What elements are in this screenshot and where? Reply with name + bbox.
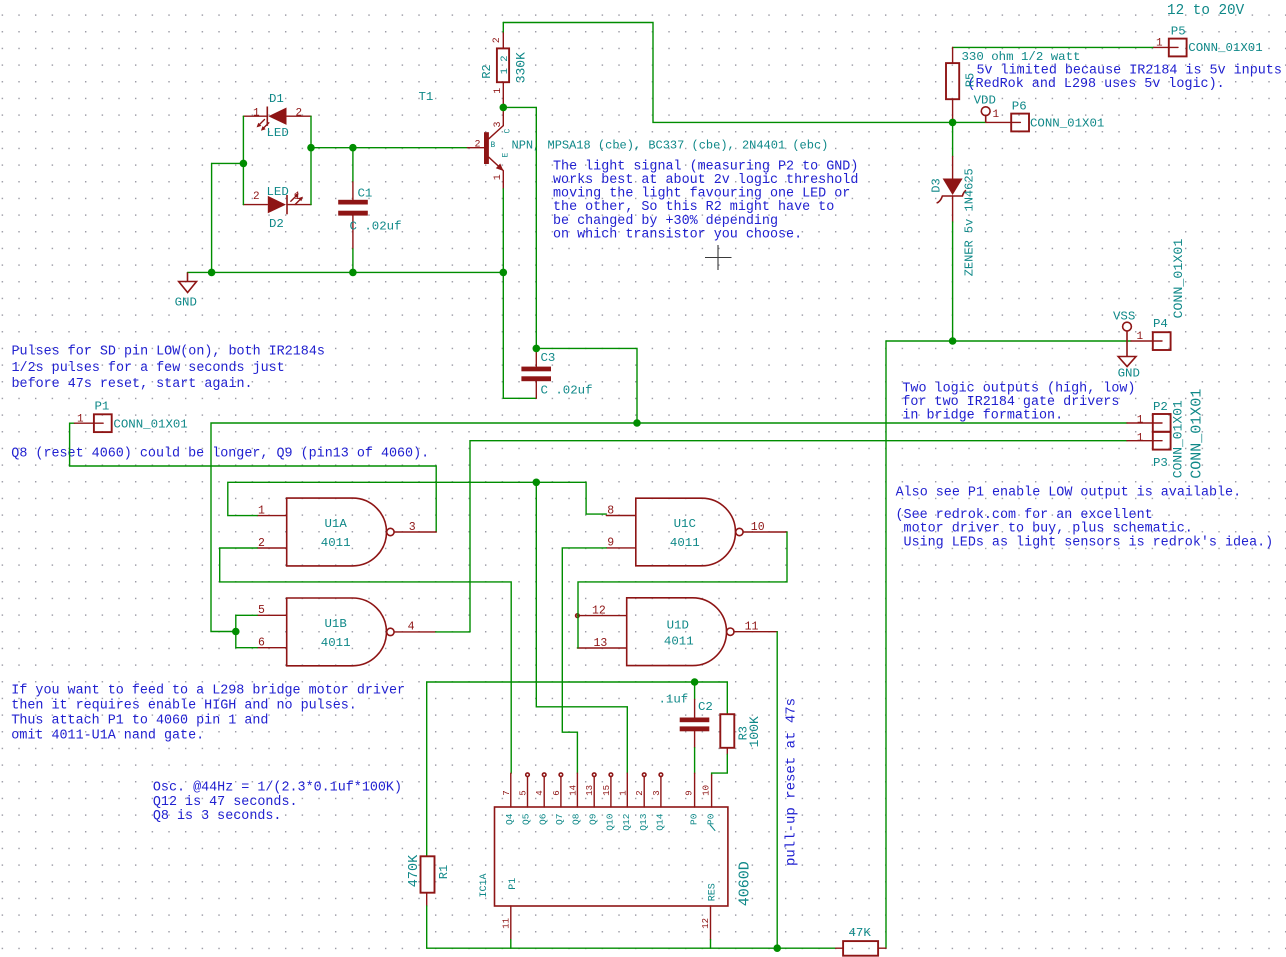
pin Q14 (3) unconnected xyxy=(659,773,663,777)
svg-text:RES: RES xyxy=(708,883,719,901)
node A junction LED left vertical xyxy=(240,160,248,168)
svg-text:on which transistor you choose: on which transistor you choose. xyxy=(553,227,802,242)
svg-text:in bridge formation.: in bridge formation. xyxy=(902,409,1063,424)
pin Q12 (1) xyxy=(626,773,628,807)
svg-text:Q10: Q10 xyxy=(605,813,616,830)
node ground rail junction C1 xyxy=(349,269,357,277)
svg-text:7: 7 xyxy=(502,790,512,795)
op-amp/gate U1A 4011 xyxy=(257,498,436,566)
svg-text:Q8: Q8 xyxy=(571,813,582,825)
svg-text:(RedRok and L298 uses 5v logic: (RedRok and L298 uses 5v logic). xyxy=(968,77,1225,92)
node C1 top junction xyxy=(349,144,357,152)
svg-text:Also see P1 enable LOW output: Also see P1 enable LOW output is availab… xyxy=(896,486,1242,501)
svg-text:9: 9 xyxy=(607,537,614,550)
wire emitter to ground rail xyxy=(502,189,504,273)
svg-text:1: 1 xyxy=(493,88,504,94)
wire reset net down to R1 xyxy=(426,682,428,856)
node bottom rail junction xyxy=(773,944,781,952)
svg-text:5: 5 xyxy=(519,790,529,795)
svg-text:13: 13 xyxy=(585,785,595,796)
svg-text:Q4: Q4 xyxy=(504,813,515,825)
wire C3 bottom stub xyxy=(503,397,536,399)
svg-text:P2: P2 xyxy=(1153,400,1168,414)
svg-text:then it requires enable HIGH a: then it requires enable HIGH and no puls… xyxy=(11,699,357,714)
pin Q7 (6) unconnected xyxy=(559,773,563,777)
svg-text:NPN, MPSA18 (cbe), BC337 (cbe): NPN, MPSA18 (cbe), BC337 (cbe), 2N4401 (… xyxy=(512,138,829,152)
node R2 bottom / collector junction xyxy=(500,104,508,112)
pin Q10 (15) unconnected xyxy=(609,773,613,777)
svg-text:U1C: U1C xyxy=(674,517,696,531)
svg-text:47K: 47K xyxy=(849,926,872,940)
svg-text:1: 1 xyxy=(1137,432,1144,444)
wire reset net horizontal xyxy=(427,681,728,683)
wire junction to VDD/P6 xyxy=(953,121,986,123)
wire U1A pin1 net to U1C pin8 xyxy=(228,482,607,515)
op-amp/gate U1C 4011 xyxy=(606,498,787,566)
svg-text:T1: T1 xyxy=(419,90,434,104)
svg-text:2: 2 xyxy=(635,790,645,795)
svg-text:C: C xyxy=(504,129,513,134)
ground symbol left xyxy=(179,272,197,292)
pin Q8 (14) xyxy=(576,773,578,807)
svg-text:330K: 330K xyxy=(513,52,528,83)
svg-text:VSS: VSS xyxy=(1113,310,1135,324)
connector P1 xyxy=(70,399,437,532)
svg-text:C .02uf: C .02uf xyxy=(541,384,593,398)
svg-text:IC1A: IC1A xyxy=(479,873,490,897)
wire collector node down to C3 xyxy=(535,107,537,348)
svg-text:4011: 4011 xyxy=(664,635,694,649)
svg-text:5: 5 xyxy=(258,604,265,617)
node junction on P2 net xyxy=(633,419,641,427)
pin D1.1 xyxy=(243,115,267,117)
node U1B input junction xyxy=(232,628,240,636)
svg-text:.1uf: .1uf xyxy=(659,693,689,707)
note: pulses for SD pin xyxy=(12,345,325,393)
pin Q13 (2) unconnected xyxy=(642,773,646,777)
svg-text:If you want to feed to a L298: If you want to feed to a L298 bridge mot… xyxy=(11,684,405,699)
svg-text:D2: D2 xyxy=(269,217,284,231)
zener D3 xyxy=(930,122,977,341)
svg-text:3: 3 xyxy=(652,790,662,795)
svg-text:U1D: U1D xyxy=(667,619,689,633)
resistor R5 xyxy=(946,47,1080,122)
note: L298 feed xyxy=(11,684,405,744)
transistor T1 xyxy=(419,90,829,189)
wire VSS rail xyxy=(886,340,1131,342)
svg-text:Osc. @44Hz = 1/(2.3*0.1uf*100K: Osc. @44Hz = 1/(2.3*0.1uf*100K) xyxy=(153,781,402,796)
wire long vertical to 47K xyxy=(885,341,887,948)
svg-text:2: 2 xyxy=(253,191,260,203)
svg-text:11: 11 xyxy=(501,918,511,929)
svg-text:10: 10 xyxy=(702,785,712,796)
svg-text:P0: P0 xyxy=(688,813,699,825)
pin P0bar (10) xyxy=(711,775,713,807)
wire U1C output to U1D pins 12/13 xyxy=(578,532,787,648)
wire P2 net long run xyxy=(211,423,1127,632)
svg-text:Q14: Q14 xyxy=(655,813,666,830)
svg-text:C .02uf: C .02uf xyxy=(350,220,402,234)
svg-text:D1: D1 xyxy=(269,92,284,106)
svg-text:Thus attach P1 to 4060 pin 1 a: Thus attach P1 to 4060 pin 1 and xyxy=(11,713,268,728)
svg-text:Q7: Q7 xyxy=(554,814,565,825)
svg-text:1/2s pulses for a few seconds: 1/2s pulses for a few seconds just xyxy=(12,361,285,376)
pin Q9 (13) unconnected xyxy=(592,773,596,777)
pin D2.1 xyxy=(287,204,311,206)
IC U2 4060 body xyxy=(495,807,728,906)
svg-text:CONN_01X01: CONN_01X01 xyxy=(1171,400,1186,478)
svg-text:C2: C2 xyxy=(698,700,713,714)
node ground rail junction left xyxy=(208,269,216,277)
capacitor C1 xyxy=(338,148,401,273)
svg-text:VDD: VDD xyxy=(974,94,996,108)
resistor R2 xyxy=(480,23,529,108)
svg-text:6: 6 xyxy=(258,637,265,650)
pin D2.2 xyxy=(243,204,267,206)
svg-text:11: 11 xyxy=(745,621,759,634)
node B junction LED right vertical xyxy=(307,144,315,152)
pin P1 (11) xyxy=(510,906,512,940)
svg-text:1 2: 1 2 xyxy=(499,55,511,74)
svg-text:10: 10 xyxy=(751,521,765,534)
LED D2 xyxy=(253,185,303,231)
svg-text:100K: 100K xyxy=(747,716,762,747)
wire ground rail down to C3 bottom xyxy=(502,272,504,398)
note: two logic outputs xyxy=(902,381,1135,423)
connector P6 xyxy=(986,100,1104,132)
svg-text:4060D: 4060D xyxy=(737,861,754,906)
svg-text:1: 1 xyxy=(253,107,260,119)
wire LED left vertical xyxy=(242,116,244,204)
capacitor C2 xyxy=(659,682,713,773)
node junction on pin1 net xyxy=(533,479,541,487)
svg-text:470K: 470K xyxy=(407,854,422,887)
svg-text:Q12 is 47 seconds.: Q12 is 47 seconds. xyxy=(153,795,298,810)
svg-text:omit 4011-U1A nand gate.: omit 4011-U1A nand gate. xyxy=(11,728,204,743)
pin Q6 (4) unconnected xyxy=(542,773,546,777)
svg-text:1: 1 xyxy=(1156,38,1163,50)
svg-text:R5: R5 xyxy=(963,73,977,87)
node VSS junction xyxy=(949,337,957,345)
svg-text:2: 2 xyxy=(492,37,503,43)
op-amp/gate U1D 4011 xyxy=(576,598,778,666)
svg-text:P3: P3 xyxy=(1153,456,1168,470)
svg-text:1: 1 xyxy=(77,414,84,426)
svg-text:P0: P0 xyxy=(705,813,716,825)
svg-text:13: 13 xyxy=(594,637,608,650)
wire U1B output up to P3 net xyxy=(436,631,470,633)
wire R5 top to P5 xyxy=(953,46,1154,48)
svg-text:P4: P4 xyxy=(1153,317,1168,331)
wire junction tap to GND branch xyxy=(212,162,244,164)
wire bottom rail xyxy=(427,947,836,949)
connector P5 xyxy=(1154,25,1263,57)
wire collector node east xyxy=(503,106,536,108)
svg-text:1: 1 xyxy=(1137,331,1144,343)
pin RES (12) xyxy=(710,906,712,940)
svg-text:C3: C3 xyxy=(541,351,556,365)
cursor crosshair xyxy=(705,245,732,270)
connector P2 xyxy=(1127,400,1186,478)
resistor R1 xyxy=(407,854,451,948)
svg-text:1: 1 xyxy=(258,504,265,517)
node C2 top junction xyxy=(691,678,699,686)
svg-text:2: 2 xyxy=(296,107,303,119)
pin P0 (9) xyxy=(694,773,696,807)
wire ground rail xyxy=(188,271,504,273)
svg-text:LED: LED xyxy=(267,126,289,140)
wire U1D output down to reset rail xyxy=(776,632,778,949)
svg-text:pull-up reset at 47s: pull-up reset at 47s xyxy=(784,698,800,866)
svg-text:CONN_01X01: CONN_01X01 xyxy=(1189,389,1206,479)
pin Q5 (5) unconnected xyxy=(526,773,530,777)
svg-text:Q13: Q13 xyxy=(638,813,649,830)
svg-text:R2: R2 xyxy=(480,64,494,78)
LED D1 xyxy=(253,92,302,140)
svg-text:B: B xyxy=(491,141,496,150)
svg-text:LED: LED xyxy=(267,185,289,199)
svg-text:12 to 20V: 12 to 20V xyxy=(1167,3,1245,19)
svg-text:Using LEDs as light sensors is: Using LEDs as light sensors is redrok's … xyxy=(896,535,1274,550)
ground symbol right xyxy=(1118,341,1136,367)
svg-text:Q5: Q5 xyxy=(521,813,532,825)
svg-text:Pulses for SD pin LOW(on), bot: Pulses for SD pin LOW(on), both IR2184s xyxy=(12,345,325,360)
wire U1C pin9 net to 4060 Q8 xyxy=(562,548,606,773)
svg-text:ZENER 5v 1N4625: ZENER 5v 1N4625 xyxy=(962,168,976,276)
svg-text:4011: 4011 xyxy=(670,536,700,550)
op-amp/gate U1B 4011 xyxy=(257,598,436,666)
wire P3 net long run xyxy=(470,441,1127,632)
svg-text:before 47s reset, start again.: before 47s reset, start again. xyxy=(12,377,253,392)
capacitor C3 xyxy=(521,350,592,398)
svg-text:4: 4 xyxy=(535,790,545,795)
svg-text:R1: R1 xyxy=(437,865,451,879)
wire LED right vertical xyxy=(310,116,312,204)
wire left branch down to ground rail xyxy=(211,163,213,272)
svg-text:1: 1 xyxy=(493,174,504,180)
svg-text:1: 1 xyxy=(294,191,301,203)
svg-text:14: 14 xyxy=(568,785,578,796)
resistor R3 xyxy=(712,682,762,775)
wire U1A pin2 net to 4060 Q4 xyxy=(220,548,512,773)
4060 top pins xyxy=(502,773,717,831)
svg-text:9: 9 xyxy=(685,790,695,795)
resistor R4 47K xyxy=(836,926,886,956)
svg-text:12: 12 xyxy=(592,604,606,617)
svg-text:1: 1 xyxy=(993,109,1000,121)
power VSS xyxy=(1123,322,1132,341)
note: light signal explanation xyxy=(553,159,858,242)
wire C3 node east then down to P2 net xyxy=(536,348,637,423)
node C3 top junction xyxy=(533,345,541,353)
note: redrok reference xyxy=(896,508,1274,550)
svg-text:U1A: U1A xyxy=(325,517,348,531)
svg-text:6: 6 xyxy=(552,790,562,795)
svg-text:1: 1 xyxy=(1137,415,1144,427)
node ground rail junction emitter xyxy=(500,269,508,277)
svg-text:CONN_01X01: CONN_01X01 xyxy=(113,417,187,431)
svg-text:E: E xyxy=(502,153,511,158)
svg-text:8: 8 xyxy=(607,504,614,517)
svg-text:2: 2 xyxy=(258,537,265,550)
node VDD junction xyxy=(949,119,957,127)
connector P3 xyxy=(1127,389,1206,479)
svg-text:4011: 4011 xyxy=(321,636,351,650)
wire LED node to C1 and base xyxy=(311,147,468,149)
svg-text:C1: C1 xyxy=(358,187,373,201)
4060 bottom pins xyxy=(501,878,718,948)
svg-text:GND: GND xyxy=(1118,367,1140,381)
svg-text:3: 3 xyxy=(493,121,504,127)
svg-text:330 ohm 1/2 watt: 330 ohm 1/2 watt xyxy=(962,50,1081,64)
svg-text:CONN_01X01: CONN_01X01 xyxy=(1188,41,1262,55)
wire U1B pin tie xyxy=(236,615,257,647)
svg-text:3: 3 xyxy=(409,521,416,534)
svg-text:12: 12 xyxy=(701,918,711,929)
power VDD xyxy=(981,107,990,123)
pin D1.2 xyxy=(287,115,311,117)
pin Q4 (7) xyxy=(510,773,512,807)
svg-text:Q9: Q9 xyxy=(587,813,598,825)
svg-text:P6: P6 xyxy=(1012,100,1027,114)
note: oscillator frequency xyxy=(153,781,402,825)
svg-text:2: 2 xyxy=(475,139,481,150)
svg-text:4: 4 xyxy=(408,621,415,634)
svg-text:GND: GND xyxy=(175,296,197,310)
svg-text:Q6: Q6 xyxy=(537,813,548,825)
svg-text:CONN_01X01: CONN_01X01 xyxy=(1171,239,1186,319)
svg-text:4011: 4011 xyxy=(321,536,351,550)
wire R2 top to supply run xyxy=(503,23,952,123)
svg-text:CONN_01X01: CONN_01X01 xyxy=(1030,116,1104,130)
svg-text:1: 1 xyxy=(618,790,628,795)
svg-text:Q8 (reset 4060) could be longe: Q8 (reset 4060) could be longer, Q9 (pin… xyxy=(11,447,429,462)
wire pin1 net down to 4060 Q12 xyxy=(536,482,627,773)
svg-text:15: 15 xyxy=(602,785,612,796)
connector P4 xyxy=(1131,239,1186,350)
svg-text:Q12: Q12 xyxy=(621,813,632,830)
svg-text:Q8 is 3 seconds.: Q8 is 3 seconds. xyxy=(153,809,282,824)
svg-text:U1B: U1B xyxy=(325,617,347,631)
svg-text:P1: P1 xyxy=(95,399,110,413)
svg-text:P1: P1 xyxy=(508,878,519,890)
svg-text:D3: D3 xyxy=(930,178,944,192)
svg-text:P5: P5 xyxy=(1171,25,1186,39)
